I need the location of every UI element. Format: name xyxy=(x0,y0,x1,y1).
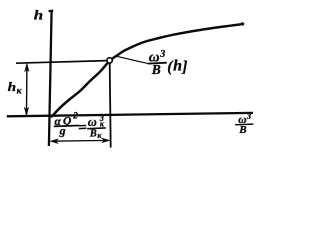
x-axis label: omega^3 / B xyxy=(235,111,253,136)
bottom dimension arrow xyxy=(50,138,110,144)
svg-text:g: g xyxy=(59,123,66,137)
svg-text:κ: κ xyxy=(100,119,105,128)
svg-text:B: B xyxy=(238,124,246,136)
leader line from curve to label xyxy=(117,56,148,63)
svg-text:3: 3 xyxy=(159,49,165,60)
curve end blob xyxy=(241,22,244,25)
y-axis xyxy=(49,11,52,147)
svg-text:B: B xyxy=(151,62,161,77)
svg-text:3: 3 xyxy=(246,111,252,121)
vertical line from point down xyxy=(110,63,111,148)
svg-text:B: B xyxy=(89,128,97,139)
svg-text:h: h xyxy=(8,81,17,94)
x-axis xyxy=(7,113,253,116)
point label: omega^3 / B (h] xyxy=(148,49,188,77)
h_k dimension arrow xyxy=(24,63,29,115)
svg-text:2: 2 xyxy=(72,111,78,121)
svg-text:]: ] xyxy=(181,58,187,75)
horizontal level line to point xyxy=(16,61,107,64)
svg-text:ω: ω xyxy=(88,115,97,129)
svg-text:h: h xyxy=(173,58,182,75)
open point circle xyxy=(107,58,112,63)
svg-text:κ: κ xyxy=(97,131,102,140)
formula under axis: alpha Q^2 / g = omega_k^3 / B_k xyxy=(54,111,106,140)
y-axis top serif xyxy=(49,10,54,13)
svg-text:h: h xyxy=(34,8,43,23)
curve xyxy=(52,24,243,117)
